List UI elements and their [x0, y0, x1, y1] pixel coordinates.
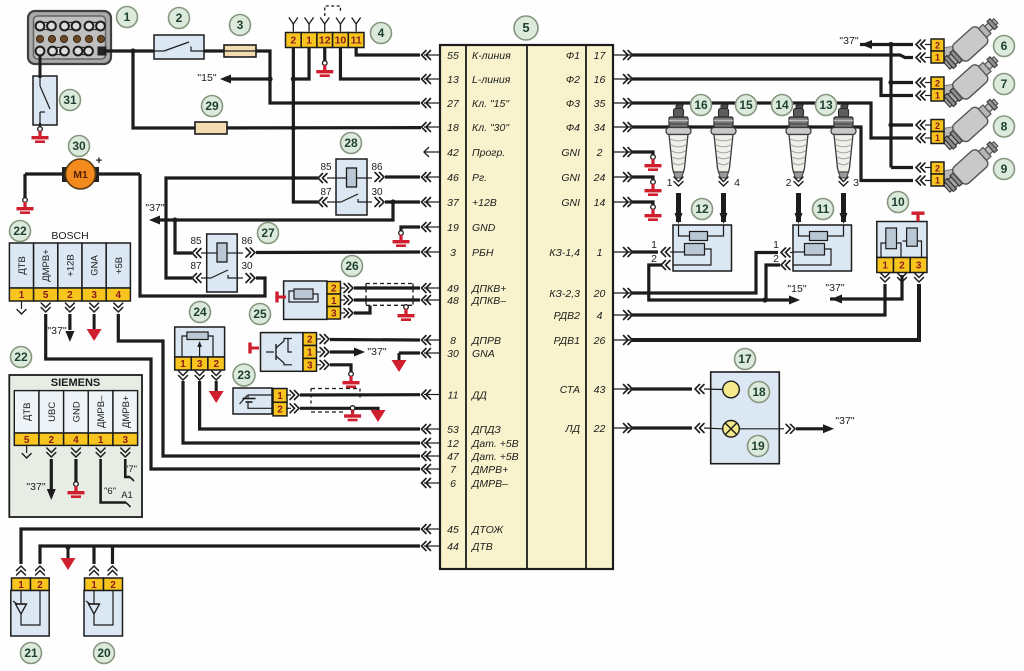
fuel injector item 9	[939, 136, 1003, 197]
item number 28	[341, 133, 362, 154]
svg-text:1: 1	[91, 580, 97, 591]
svg-text:43: 43	[594, 384, 606, 396]
svg-text:1: 1	[124, 10, 131, 24]
svg-text:30: 30	[371, 187, 383, 198]
svg-text:"15": "15"	[787, 283, 806, 295]
svg-text:49: 49	[447, 283, 459, 295]
spark plug item 15	[711, 104, 736, 178]
item number 10	[888, 192, 909, 213]
svg-text:4: 4	[73, 435, 79, 446]
svg-text:3: 3	[307, 360, 313, 371]
wire junction down to fuse 29 line	[133, 51, 196, 128]
svg-text:+12В: +12В	[65, 254, 76, 276]
svg-text:18: 18	[447, 122, 459, 134]
connector4 pin11 wire to ECU 55 K-line	[356, 48, 420, 56]
coolant temp sensor item 21	[11, 590, 49, 636]
svg-text:17: 17	[594, 50, 607, 62]
item 10 chassis mark	[912, 212, 925, 215]
svg-text:РДВ2: РДВ2	[554, 310, 581, 322]
svg-text:13: 13	[447, 74, 459, 86]
svg-text:20: 20	[593, 288, 606, 300]
svg-text:2: 2	[213, 359, 219, 370]
svg-text:85: 85	[320, 162, 332, 173]
svg-text:ДМРВ–: ДМРВ–	[471, 478, 508, 490]
item number 31	[60, 90, 81, 111]
switch item 31 (oil pressure / inertia switch)	[33, 76, 57, 125]
wire fusebox to ignition switch	[104, 49, 154, 52]
svg-text:"37": "37"	[145, 202, 164, 214]
svg-text:GNA: GNA	[472, 348, 495, 360]
GNI pin2 ground	[632, 152, 653, 155]
ECU RDV1 pin26 wire to idle valve pin3	[632, 284, 919, 340]
svg-text:ДТВ: ДТВ	[17, 256, 28, 275]
svg-text:2: 2	[331, 283, 337, 294]
SIEMENS pin2 wire to "37"	[47, 448, 56, 457]
CKP pin2 wire to ECU 49 DPKV+	[341, 287, 346, 289]
svg-text:"37": "37"	[825, 282, 844, 294]
svg-text:5: 5	[522, 20, 529, 35]
fuel injector item 8	[939, 93, 1003, 154]
svg-text:22: 22	[13, 224, 27, 238]
item number 20	[94, 643, 115, 664]
BOSCH pin4 +5V wire to ECU 47	[114, 303, 123, 312]
svg-text:28: 28	[344, 136, 358, 150]
main relay item 28	[336, 159, 367, 215]
svg-text:К-линия: К-линия	[472, 50, 511, 62]
ECU GND pin 19 ground	[401, 227, 420, 231]
svg-text:"7": "7"	[125, 464, 137, 475]
svg-text:4: 4	[597, 310, 603, 322]
TPS pin3 wire to ECU 53 DPDZ	[200, 381, 420, 429]
antenna symbols above connector 4	[292, 24, 294, 32]
svg-text:+: +	[96, 155, 102, 167]
ECU DTOZh pin45 wire to sensor 21 pin1	[21, 529, 420, 564]
svg-text:1: 1	[667, 177, 673, 189]
ECU GNA pin30 chassis arrow	[399, 351, 420, 354]
svg-text:+12В: +12В	[472, 197, 497, 209]
svg-text:3: 3	[197, 359, 203, 370]
item number 6	[994, 36, 1015, 57]
svg-text:16: 16	[594, 74, 606, 86]
SIEMENS pin3 wire to net 7	[121, 448, 130, 457]
svg-text:4: 4	[116, 290, 122, 301]
item number 4	[371, 23, 392, 44]
TPS pin2 wire to chassis arrow	[215, 381, 218, 392]
svg-text:ДПРВ: ДПРВ	[471, 335, 501, 347]
spark plug item 13	[831, 104, 856, 178]
svg-text:44: 44	[447, 541, 459, 553]
knock pin2 wire with shield	[286, 407, 291, 409]
connector4 pin12 to ground	[323, 48, 326, 62]
svg-text:2: 2	[935, 41, 940, 51]
svg-text:2: 2	[935, 79, 940, 89]
svg-text:27: 27	[261, 226, 275, 240]
item number 18	[749, 382, 770, 403]
ignition coil item 12	[673, 225, 732, 271]
svg-text:"37": "37"	[47, 325, 66, 337]
camshaft phase sensor item 25	[261, 333, 304, 372]
ignition coil item 11	[793, 225, 852, 271]
svg-text:GNI: GNI	[561, 197, 580, 209]
item number 26	[342, 256, 363, 277]
item number 22 SIEMENS	[11, 347, 32, 368]
svg-text:27: 27	[446, 98, 460, 110]
air temp sensor item 20	[84, 590, 123, 636]
svg-text:2: 2	[651, 253, 657, 265]
item number 2	[169, 8, 190, 29]
item number 27	[258, 223, 279, 244]
svg-text:"37": "37"	[839, 35, 858, 47]
plug 13 wire to ignition coil	[839, 177, 848, 186]
svg-text:48: 48	[447, 295, 459, 307]
svg-text:3: 3	[450, 247, 456, 259]
svg-text:86: 86	[371, 162, 383, 173]
svg-text:"6": "6"	[104, 486, 116, 497]
svg-text:1: 1	[882, 261, 888, 272]
svg-text:11: 11	[448, 389, 459, 401]
svg-text:14: 14	[775, 98, 789, 112]
svg-text:12: 12	[695, 202, 709, 216]
svg-text:12: 12	[319, 35, 331, 47]
ECU LD pin22 wire to diagnostic lamp	[632, 426, 692, 429]
shield box around knock wires	[311, 388, 360, 390]
ECU STA pin43 wire to lamp block	[632, 387, 692, 390]
indicator item 18	[723, 381, 740, 398]
svg-text:Ф2: Ф2	[566, 74, 580, 86]
svg-text:GND: GND	[472, 222, 496, 234]
svg-text:3: 3	[916, 261, 922, 272]
idle air control valve item 10	[877, 222, 927, 258]
item number 30	[69, 136, 90, 157]
item number 16	[691, 95, 712, 116]
shield ground	[404, 305, 409, 310]
svg-text:5: 5	[24, 435, 30, 446]
svg-text:1: 1	[307, 348, 313, 359]
svg-text:ДМРВ+: ДМРВ+	[121, 395, 132, 428]
svg-text:47: 47	[447, 451, 460, 463]
svg-text:ДТОЖ: ДТОЖ	[471, 524, 504, 536]
fuse-and-relay box item 1	[28, 11, 111, 64]
CKP pin1 wire to ECU 48 DPKV-	[341, 299, 346, 301]
SIEMENS MAF connector item 22 (alternative)	[9, 375, 142, 517]
svg-text:6: 6	[1001, 39, 1008, 53]
svg-text:Ф3: Ф3	[566, 98, 580, 110]
svg-text:1: 1	[597, 247, 603, 259]
svg-text:30: 30	[72, 139, 86, 153]
svg-text:22: 22	[593, 423, 606, 435]
svg-text:Рг.: Рг.	[472, 172, 487, 184]
svg-text:1: 1	[935, 91, 940, 101]
GNI pin14 ground	[632, 202, 653, 205]
svg-text:26: 26	[593, 335, 606, 347]
BOSCH pin1 arrow	[17, 310, 26, 315]
svg-text:КЗ-1,4: КЗ-1,4	[549, 247, 580, 259]
svg-text:2: 2	[67, 290, 73, 301]
svg-text:КЗ-2,3: КЗ-2,3	[549, 288, 580, 300]
item number 13	[816, 95, 837, 116]
svg-text:2: 2	[277, 405, 283, 416]
net wire left to fuel pump relay 27 pin 87	[166, 178, 293, 278]
svg-text:35: 35	[594, 98, 606, 110]
spark plug item 14	[786, 104, 811, 178]
svg-text:87: 87	[320, 187, 332, 198]
CKP pin3 shield drain wire	[341, 312, 346, 314]
relay27 pin30 to fuel pump M1	[237, 277, 243, 279]
ECU controller block U5	[440, 45, 613, 569]
svg-text:24: 24	[193, 305, 207, 319]
item number 1	[117, 7, 138, 28]
M1 ground	[23, 174, 26, 198]
connector4 pin1 wire joining pin2 net	[293, 48, 309, 80]
fuse F29 item 29	[196, 126, 421, 130]
tap to "15" power label	[230, 77, 270, 80]
svg-text:31: 31	[63, 93, 77, 107]
wire switch to fuse 3	[204, 49, 224, 52]
svg-text:ДД: ДД	[471, 389, 487, 401]
SIEMENS pin5 arrow	[22, 454, 31, 459]
svg-text:26: 26	[345, 259, 359, 273]
fuel pump motor M1 item 30	[97, 172, 140, 175]
svg-text:М1: М1	[73, 169, 88, 181]
ECU F4 pin34 wire to injector 9 pin1	[632, 127, 913, 181]
BOSCH pin2 +12V wire to "37"	[65, 303, 74, 312]
TPS pins 1 3 2	[175, 357, 192, 370]
svg-text:25: 25	[253, 307, 267, 321]
svg-text:ДПКВ+: ДПКВ+	[471, 283, 506, 295]
svg-text:34: 34	[594, 122, 606, 134]
relay27 pin86 to ECU 3 RBN	[237, 252, 243, 254]
relay27 pin85 from "37" line	[175, 220, 192, 253]
svg-text:10: 10	[335, 35, 347, 47]
svg-text:2: 2	[37, 580, 43, 591]
svg-text:1: 1	[277, 391, 283, 402]
svg-text:L-линия: L-линия	[472, 74, 511, 86]
item number 21	[21, 643, 42, 664]
fuel injector item 6	[939, 13, 1003, 74]
svg-text:1: 1	[306, 35, 312, 47]
connector4 pin10 wire to ECU 13 L-line	[340, 48, 420, 80]
svg-text:1: 1	[935, 176, 940, 186]
svg-text:2: 2	[176, 11, 183, 25]
ECU DTV pin44 wire to sensors 20 21	[40, 546, 420, 564]
ground below item 31	[39, 123, 41, 128]
injector 9 connector pins	[931, 162, 944, 174]
shield box around CKP pair	[366, 283, 413, 285]
svg-text:ДПДЗ: ДПДЗ	[471, 424, 501, 436]
svg-text:ЛД: ЛД	[564, 423, 580, 435]
svg-text:+5В: +5В	[114, 257, 125, 274]
svg-text:РДВ1: РДВ1	[554, 335, 580, 347]
ECU RDV2 pin4 wire to idle valve pin1	[632, 284, 885, 315]
lamp wire to "37"	[739, 428, 779, 430]
svg-text:8: 8	[1001, 120, 1008, 134]
svg-text:15: 15	[739, 98, 753, 112]
svg-text:2: 2	[786, 177, 792, 189]
svg-text:23: 23	[237, 368, 251, 382]
svg-text:53: 53	[447, 424, 459, 436]
injector 8 pin2 feed	[891, 123, 913, 126]
svg-text:GNI: GNI	[561, 147, 580, 159]
svg-text:GNI: GNI	[561, 172, 580, 184]
svg-text:UBC: UBC	[47, 402, 58, 422]
svg-text:Кл. "15": Кл. "15"	[472, 98, 510, 110]
item number 19	[748, 436, 769, 457]
item 26 chassis mark	[275, 292, 278, 303]
ECU F3 pin35 wire to injector 8 pin1	[632, 103, 913, 138]
svg-text:2: 2	[935, 164, 940, 174]
svg-text:3: 3	[91, 290, 97, 301]
SIEMENS pin1 wire to net 6 A1	[96, 448, 105, 457]
svg-text:46: 46	[447, 172, 459, 184]
dashed link above pin 12	[325, 6, 341, 16]
svg-text:4: 4	[378, 26, 385, 40]
item 25 chassis mark	[248, 343, 251, 354]
svg-text:21: 21	[24, 646, 38, 660]
svg-text:2: 2	[49, 435, 55, 446]
svg-text:1: 1	[18, 580, 24, 591]
sensor common chassis arrow	[67, 547, 70, 559]
svg-text:"37": "37"	[367, 346, 386, 358]
relay28 pin30 junction down to "37" feed line	[160, 202, 393, 220]
svg-text:3: 3	[331, 308, 337, 319]
svg-text:1: 1	[180, 359, 186, 370]
svg-text:Дат. +5В: Дат. +5В	[471, 438, 519, 450]
svg-text:87: 87	[190, 261, 202, 272]
svg-text:2: 2	[935, 121, 940, 131]
svg-text:"37": "37"	[835, 415, 854, 427]
svg-text:1: 1	[773, 239, 779, 251]
wire fuse3 to ECU pin 27 Kl.15	[256, 51, 420, 103]
ECU item number 5	[514, 16, 538, 40]
svg-text:5: 5	[43, 290, 49, 301]
svg-text:СТА: СТА	[560, 384, 580, 396]
SIEMENS pin4 ground	[71, 448, 80, 457]
item number 11	[813, 199, 834, 220]
svg-text:2: 2	[307, 335, 313, 346]
svg-text:1: 1	[935, 53, 940, 63]
item number 8	[994, 116, 1015, 137]
diagnostic connector item 4	[286, 33, 302, 48]
svg-text:19: 19	[751, 439, 765, 453]
svg-text:55: 55	[447, 50, 459, 62]
svg-text:4: 4	[734, 177, 740, 189]
diagnostic lamp item 19	[723, 421, 740, 438]
fuse F3 item 3	[224, 45, 256, 57]
phase pin2 wire to ECU 8 DPRV	[317, 338, 322, 340]
svg-text:1: 1	[651, 239, 657, 251]
phase pin1 wire to "37"	[317, 351, 322, 353]
svg-text:85: 85	[190, 236, 202, 247]
net wire to relay 28 pin 85 and down to pin 87	[293, 176, 318, 179]
svg-text:BOSCH: BOSCH	[51, 230, 88, 242]
diagnostic lamp block item 17	[711, 372, 780, 464]
svg-text:GND: GND	[71, 401, 82, 422]
svg-text:11: 11	[817, 202, 830, 216]
svg-text:19: 19	[447, 222, 459, 234]
ECU F2 pin16 wire to injector 7 pin1	[632, 79, 913, 96]
knock shield ground	[350, 406, 355, 411]
svg-text:17: 17	[738, 352, 752, 366]
BOSCH pin5 DMRV+ wire to ECU 7	[41, 303, 50, 312]
svg-text:РБН: РБН	[472, 247, 494, 259]
svg-text:13: 13	[819, 98, 833, 112]
svg-text:ДТВ: ДТВ	[471, 541, 493, 553]
svg-text:2: 2	[899, 261, 905, 272]
svg-text:3: 3	[237, 18, 244, 32]
injector 6 pin2 feed	[891, 43, 913, 46]
BOSCH MAF connector item 22	[9, 243, 33, 288]
svg-text:16: 16	[694, 98, 708, 112]
item number 7	[994, 74, 1015, 95]
svg-text:1: 1	[331, 296, 337, 307]
item number 22 BOSCH	[10, 221, 31, 242]
svg-text:2: 2	[596, 147, 603, 159]
item number 23	[233, 364, 255, 386]
injector 7 connector pins	[931, 77, 944, 89]
svg-text:3: 3	[122, 435, 128, 446]
svg-text:ДМРВ+: ДМРВ+	[41, 249, 52, 282]
svg-text:30: 30	[447, 348, 459, 360]
svg-text:Прогр.: Прогр.	[472, 147, 505, 159]
BOSCH pin3 GNA chassis arrow	[90, 303, 99, 312]
ignition switch item 2	[154, 35, 204, 59]
ECU F1 pin17 wire to injector 6 pin1	[632, 55, 913, 58]
idle valve pin arrows	[881, 273, 890, 282]
phase pin3 wire to ground	[317, 364, 322, 366]
svg-text:1: 1	[19, 290, 25, 301]
svg-text:45: 45	[447, 524, 459, 536]
svg-text:11: 11	[351, 35, 362, 47]
throttle position sensor item 24	[175, 327, 225, 357]
idle valve pins 1 2 3	[877, 258, 894, 273]
TPS pin arrows	[179, 371, 188, 380]
svg-text:ДТВ: ДТВ	[22, 403, 33, 422]
svg-text:А1: А1	[121, 490, 133, 501]
svg-text:37: 37	[447, 197, 460, 209]
svg-text:"37": "37"	[26, 481, 45, 493]
svg-text:ДПКВ–: ДПКВ–	[471, 295, 506, 307]
plug 16 wire to ignition coil	[674, 177, 683, 186]
svg-text:7: 7	[1001, 77, 1008, 91]
CKP pins 2 1 3	[327, 282, 341, 295]
svg-text:6: 6	[450, 478, 456, 490]
svg-text:SIEMENS: SIEMENS	[51, 377, 101, 389]
svg-text:30: 30	[241, 261, 253, 272]
svg-text:3: 3	[853, 177, 859, 189]
item number 9	[994, 159, 1015, 180]
plug 14 wire to ignition coil	[794, 177, 803, 186]
injector 7 pin2 feed	[891, 81, 913, 84]
item number 3	[230, 15, 251, 36]
svg-text:9: 9	[1001, 162, 1008, 176]
svg-text:24: 24	[593, 172, 606, 184]
svg-text:ДМРВ+: ДМРВ+	[471, 464, 508, 476]
relay28 pin30 to ECU 37 +12V	[367, 201, 372, 203]
svg-text:1: 1	[98, 435, 104, 446]
svg-text:2: 2	[290, 35, 296, 47]
phase sensor pins 2 1 3	[303, 333, 317, 346]
svg-text:Дат. +5В: Дат. +5В	[471, 451, 519, 463]
svg-text:Кл. "30": Кл. "30"	[472, 122, 510, 134]
item number 15	[736, 95, 757, 116]
svg-text:2: 2	[110, 580, 116, 591]
item number 25	[250, 304, 271, 325]
knock pin1 wire to ECU 11 DD	[286, 394, 291, 396]
injector 8 connector pins	[931, 120, 944, 132]
knock sensor item 23	[233, 388, 272, 414]
svg-text:22: 22	[14, 350, 28, 364]
svg-text:14: 14	[594, 197, 606, 209]
